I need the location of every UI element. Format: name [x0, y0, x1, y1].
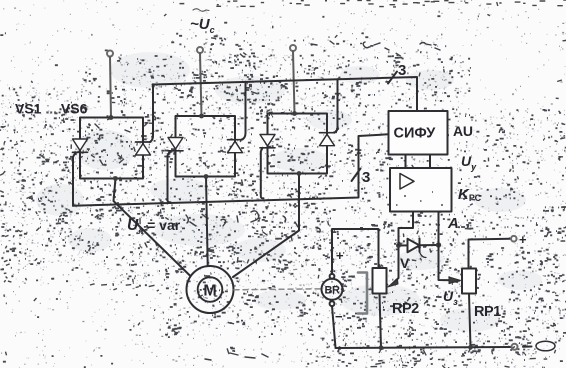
- plus terminal: [511, 236, 517, 242]
- svg-text:VS1 ... VS6: VS1 ... VS6: [15, 101, 88, 117]
- supply terminal 3: [290, 45, 296, 51]
- svg-text:RP2: RP2: [392, 301, 419, 317]
- wire box2 to motor: [206, 177, 208, 266]
- wire gate VS6 (box3 right): [334, 79, 337, 132]
- node diode anode: [396, 243, 401, 248]
- supply terminal 1: [107, 51, 113, 57]
- wire amplifier output to node A: [438, 212, 440, 246]
- wire phase 1: [110, 57, 111, 118]
- amplifier block (speed regulator): [390, 168, 452, 212]
- wire gate VS2 (box1 right): [150, 84, 153, 142]
- wire BR minus to bottom bus: [332, 306, 336, 348]
- wire gate VS1 (box1 left): [73, 152, 76, 206]
- node box3 bottom: [297, 171, 302, 176]
- wire box3 to motor: [233, 174, 299, 278]
- svg-text:+: +: [336, 248, 344, 263]
- wire gate VS5 (box3 left): [261, 148, 264, 199]
- ellipse scan mark: [536, 341, 555, 351]
- thyristor VS5 (box3 left, down): [260, 135, 275, 148]
- slash 3-wires mark (left of amplifier): [352, 169, 361, 182]
- wires SIFU to amplifier: [406, 155, 431, 169]
- svg-text:3: 3: [362, 169, 370, 186]
- thyristor module box 2: [176, 116, 236, 177]
- node A junction: [436, 242, 441, 247]
- minus terminal: [512, 344, 518, 350]
- wire amplifier output to diode anode: [399, 212, 414, 246]
- wire box1 to motor: [114, 179, 191, 276]
- node box1 top: [109, 115, 114, 120]
- svg-text:3: 3: [398, 62, 406, 79]
- wire BR plus to RP2 top: [332, 229, 379, 274]
- svg-text:V: V: [400, 255, 410, 271]
- svg-text:СИФУ: СИФУ: [394, 126, 437, 142]
- thyristor VS4 (box2 right, up): [228, 140, 243, 153]
- wire RP2 wiper: [388, 246, 399, 288]
- thyristor VS3 (box2 left, down): [168, 138, 183, 151]
- thyristor VS6 (box3 right, up): [320, 133, 335, 146]
- thyristor VS1 (box1 left, down): [73, 139, 88, 152]
- wire phase 2: [200, 53, 202, 116]
- wire RP1 top to plus terminal: [469, 239, 512, 269]
- wire phase 3: [293, 51, 295, 114]
- node RP1 bottom: [468, 345, 473, 350]
- amplifier triangle symbol: [400, 174, 414, 190]
- thyristor VS2 (box1 right, up): [136, 142, 151, 155]
- wire gate VS4 (box2 right): [242, 82, 245, 140]
- wire RP1 bottom: [469, 294, 471, 348]
- svg-text:AU: AU: [453, 123, 473, 139]
- wire bottom gate bus to SIFU left: [73, 134, 388, 206]
- wire top gate bus to SIFU top: [153, 77, 418, 111]
- node RP2 bottom: [379, 345, 384, 350]
- svg-text:A: A: [447, 215, 459, 232]
- minus mark: [523, 346, 532, 348]
- potentiometer RP2: [373, 268, 387, 294]
- thyristor module box 1: [80, 118, 143, 179]
- coupling shaft dashed: [234, 289, 322, 290]
- wire bottom bus: [336, 347, 512, 348]
- svg-text:M: M: [203, 283, 216, 300]
- motor M: [187, 266, 234, 313]
- node box2 bottom: [204, 174, 209, 179]
- diode V: [399, 239, 439, 258]
- bracket (frame) symbol: [358, 273, 367, 314]
- wire node A to RP1 wiper: [439, 245, 461, 284]
- supply terminal 2: [197, 47, 203, 53]
- svg-text:BR: BR: [324, 285, 340, 297]
- thyristor module box 3: [268, 114, 328, 174]
- potentiometer RP1: [462, 269, 476, 294]
- slash 3-wires mark (top): [388, 72, 397, 84]
- wire RP2 bottom: [380, 294, 382, 348]
- svg-text:−: −: [335, 309, 343, 324]
- node box3 top: [292, 111, 297, 116]
- block SIFU (AU): [389, 111, 448, 155]
- node box1 bottom: [113, 176, 118, 181]
- tachogenerator BR: [322, 274, 343, 306]
- wire gate VS3 (box2 left): [168, 151, 171, 202]
- svg-text:+: +: [519, 232, 527, 247]
- svg-text:RP1: RP1: [474, 304, 501, 320]
- node box2 top: [199, 114, 204, 119]
